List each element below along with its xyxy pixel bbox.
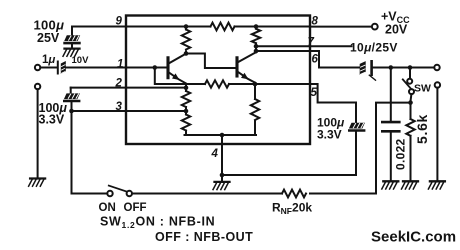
- ground (under C6): [382, 181, 399, 189]
- svg-text:4: 4: [211, 148, 219, 160]
- svg-text:9: 9: [116, 16, 123, 28]
- resistor internal Q2 emitter: [251, 84, 259, 135]
- switch SW1/SW2 (ON/OFF): [107, 186, 132, 197]
- input terminal J2: [35, 84, 40, 89]
- svg-text:3.3V: 3.3V: [39, 113, 65, 127]
- node rail right: [254, 24, 259, 29]
- terminal output ground-side: [435, 82, 440, 87]
- wire pin4 node to C4 bottom: [222, 174, 356, 176]
- resistor internal Q1 collector load: [182, 27, 190, 54]
- svg-text:7: 7: [308, 37, 315, 49]
- node output SW: [408, 65, 413, 70]
- capacitor C6 0.022: [382, 68, 399, 181]
- ground (pin4): [213, 175, 230, 190]
- svg-text:SW1.2ON : NFB-IN: SW1.2ON : NFB-IN: [100, 215, 215, 231]
- svg-text:SW: SW: [414, 83, 431, 95]
- node Q2 emitter / pin5: [253, 82, 258, 87]
- wire coupling Q1 collector to Q2 base: [186, 54, 236, 69]
- wire pin6 step to output: [256, 51, 360, 68]
- svg-text:2: 2: [115, 78, 123, 90]
- wire base link: [155, 67, 167, 69]
- svg-text:6: 6: [312, 54, 319, 66]
- svg-text:5: 5: [311, 87, 318, 99]
- wire J1 to C2: [40, 67, 57, 69]
- wire switch to RNF: [132, 193, 282, 195]
- node Q1 emitter / pin2: [184, 85, 189, 90]
- resistor internal ripple-filter (on rail): [211, 23, 235, 31]
- transistor Q2: [237, 52, 256, 84]
- node pin1/base junction: [153, 65, 158, 70]
- capacitor C4 100u/3.3V (right): [349, 123, 365, 175]
- capacitor C3 100u/3.3V (left): [64, 88, 80, 111]
- capacitor C1 100u/25V: [64, 27, 80, 48]
- wire NFB to Q1 base (L-wire): [155, 68, 205, 85]
- wire pin5 step to C4: [255, 84, 356, 123]
- ground (under 5.6k): [402, 181, 419, 189]
- svg-text:10V: 10V: [72, 55, 90, 66]
- wire terminal2 down: [436, 88, 438, 180]
- node pin7 tap: [254, 44, 259, 49]
- wire internal bottom rail: [185, 134, 257, 136]
- svg-text:0.022: 0.022: [394, 138, 408, 170]
- wire pin7: [256, 45, 352, 47]
- svg-text:5.6k: 5.6k: [414, 114, 430, 144]
- node Q1 collector: [184, 51, 189, 56]
- wire C2 to pin1: [66, 67, 155, 69]
- IC package box U1: [126, 16, 310, 145]
- wire NFB descender to switch: [72, 111, 108, 194]
- node pin3/NFB junction: [69, 109, 74, 114]
- wire pin4 down: [221, 135, 223, 175]
- node pin4: [220, 133, 225, 138]
- resistor internal NFB: [205, 80, 229, 87]
- svg-text:3: 3: [116, 101, 123, 113]
- wire pin2: [71, 87, 186, 89]
- node pin6 tap: [254, 49, 259, 54]
- svg-text:3.3V: 3.3V: [317, 128, 342, 142]
- resistor 5.6k: [406, 103, 414, 181]
- ground (under C1): [63, 49, 80, 57]
- ground (input): [29, 179, 45, 187]
- svg-text:20V: 20V: [385, 23, 408, 37]
- terminal output hot: [434, 65, 439, 70]
- wire NFB resistor to Q2 emitter: [229, 83, 255, 85]
- svg-text:RNF20k: RNF20k: [272, 201, 312, 217]
- resistor internal Q1 emitter lower: [182, 111, 190, 135]
- node output Zobel: [389, 65, 394, 70]
- capacitor C5 10u/25V: [360, 61, 376, 80]
- wire J2 down: [37, 89, 39, 177]
- wire internal Vcc rail pin9 to pin8: [72, 26, 310, 28]
- svg-text:OFF : NFB-OUT: OFF : NFB-OUT: [155, 230, 253, 244]
- wire pin8 to Vcc: [310, 26, 372, 28]
- ground (under terminal2): [428, 181, 445, 189]
- input terminal J1: [35, 65, 40, 70]
- capacitor C2 1u/10V: [58, 61, 66, 74]
- node NFB junction: [408, 100, 413, 105]
- switch SW (right): [403, 68, 414, 101]
- resistor internal Q2 collector load: [252, 27, 260, 53]
- svg-text:1: 1: [117, 59, 123, 71]
- terminal +Vcc: [372, 24, 378, 30]
- svg-text:1μ: 1μ: [42, 54, 55, 66]
- node pin3 tap: [184, 109, 189, 114]
- svg-text:ON: ON: [99, 202, 116, 214]
- wire output: [373, 67, 434, 69]
- resistor internal Q1 emitter upper: [182, 88, 190, 111]
- svg-text:25V: 25V: [37, 31, 60, 45]
- svg-text:8: 8: [312, 16, 319, 28]
- resistor RNF 20k: [282, 190, 306, 198]
- svg-text:OFF: OFF: [124, 202, 147, 214]
- svg-text:SeekIC.com: SeekIC.com: [371, 229, 456, 246]
- node rail left: [184, 24, 189, 29]
- wire RNF to NFB node: [310, 103, 411, 194]
- wire pin3: [72, 110, 187, 112]
- svg-text:10μ/25V: 10μ/25V: [350, 41, 398, 55]
- node pin4 ground junction: [220, 173, 225, 178]
- transistor Q1: [168, 54, 186, 88]
